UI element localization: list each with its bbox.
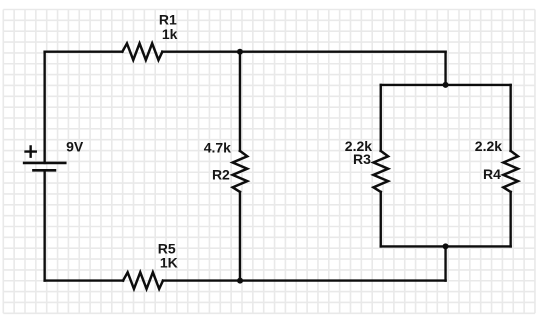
svg-text:R3: R3 <box>353 151 371 167</box>
resistor R5 <box>123 272 163 289</box>
resistor R3 <box>373 151 388 192</box>
wire left vertical lower (battery - to bottom) <box>43 170 45 280</box>
wire from parallel rail down to bottom wire <box>444 246 446 280</box>
wire bottom horizontal left segment <box>45 279 123 281</box>
wire R2 branch upper <box>239 52 241 151</box>
svg-text:4.7k: 4.7k <box>204 140 231 156</box>
wire R4 branch upper <box>509 85 511 151</box>
wire left vertical upper (to battery +) <box>43 52 45 163</box>
wire bottom horizontal right segment <box>163 279 446 281</box>
svg-text:1k: 1k <box>162 26 178 42</box>
battery V1 positive plate <box>24 162 65 165</box>
wire R4 branch lower <box>509 192 511 247</box>
wire parallel bottom rail <box>381 245 511 247</box>
battery plus sign <box>26 147 36 157</box>
wire R3 branch lower <box>380 192 382 247</box>
wire top horizontal right segment <box>162 51 445 53</box>
svg-text:1K: 1K <box>160 254 178 270</box>
svg-text:9V: 9V <box>66 139 84 155</box>
wire parallel top rail <box>381 84 511 86</box>
node junction parallel top <box>443 82 449 88</box>
battery V1 negative plate <box>33 169 55 172</box>
svg-text:R2: R2 <box>212 167 230 183</box>
node junction top (R1/R2) <box>237 49 243 55</box>
resistor R2 <box>233 151 248 192</box>
node junction bottom (R2/R5) <box>237 278 243 284</box>
wire R2 branch lower <box>239 192 241 281</box>
svg-text:2.2k: 2.2k <box>475 138 502 154</box>
wire right vertical from top wire down to parallel rail <box>444 52 446 85</box>
node junction parallel bottom <box>443 243 449 249</box>
wire top horizontal left segment <box>45 51 123 53</box>
resistor R4 <box>503 151 518 192</box>
wire R3 branch upper <box>380 85 382 151</box>
resistor R1 <box>122 43 162 60</box>
svg-text:R4: R4 <box>483 166 501 182</box>
